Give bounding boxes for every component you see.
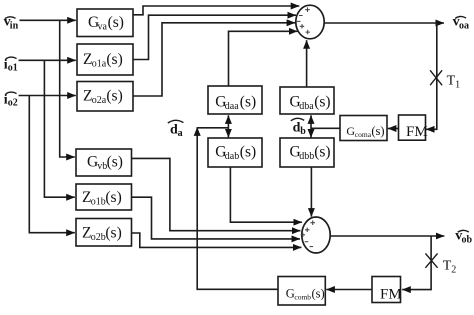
node d_a double arrow [227, 115, 229, 137]
svg-text:o2b: o2b [91, 232, 106, 243]
svg-text:FM: FM [406, 124, 428, 140]
svg-text:(s): (s) [105, 189, 121, 206]
wire i_o2 to Z_o2a [19, 95, 76, 97]
wire Z_o2a output to summing junction S1 [133, 23, 295, 96]
wire S2 output to v_ob [330, 235, 444, 237]
signs of summing junction S1 [297, 7, 310, 34]
block G_coma [340, 116, 387, 141]
label v_in [4, 15, 19, 32]
sampler T1 X mark [430, 70, 442, 85]
node d_b double arrow [310, 115, 312, 137]
hat over i_o1 [6, 57, 17, 59]
label T2 [443, 259, 457, 276]
label i_o2 [4, 92, 18, 108]
block G_vb [76, 149, 132, 176]
hat over v_oa [455, 16, 466, 18]
wire G_coma to node d_b [311, 127, 340, 129]
label d_a [170, 122, 183, 139]
svg-text:daa: daa [225, 101, 239, 112]
block Z_o1a [77, 44, 133, 75]
svg-text:(s): (s) [240, 94, 256, 111]
wire Z_o1a output to summing junction S1 [133, 15, 296, 59]
wire G_dab output to summing junction S2 [230, 167, 302, 222]
svg-text:in: in [10, 20, 19, 31]
svg-text:dab: dab [225, 151, 239, 162]
wire Z_o2b output to summing junction S2 [132, 233, 302, 247]
wire Z_o1b output to summing junction S2 [132, 197, 300, 239]
sampler T2 X mark [425, 253, 437, 267]
svg-text:o2: o2 [8, 98, 18, 109]
block FM b [372, 277, 402, 303]
svg-text:1: 1 [455, 80, 460, 91]
hat over d_b [291, 118, 304, 121]
summing junction S1 [296, 5, 324, 39]
svg-text:(s): (s) [240, 144, 256, 161]
block G_daa [208, 86, 262, 114]
wire G_dbb output down to summing junction S2 [310, 167, 312, 217]
label d_b [293, 120, 307, 137]
svg-text:(s): (s) [106, 88, 122, 105]
wire i_o1 to Z_o1a [19, 59, 76, 61]
hat over v_ob [458, 230, 469, 232]
block G_dba [280, 87, 334, 114]
svg-text:(s): (s) [314, 144, 330, 161]
svg-text:o2a: o2a [92, 95, 107, 106]
svg-text:oa: oa [459, 20, 469, 31]
svg-text:o1: o1 [8, 63, 18, 74]
wire FM b to G_comb [326, 289, 372, 291]
svg-text:coma: coma [355, 130, 372, 139]
label i_o1 [4, 57, 18, 73]
svg-text:o1b: o1b [91, 197, 106, 208]
svg-text:FM: FM [380, 287, 402, 303]
block Z_o2a [77, 82, 133, 112]
block Z_o2b [76, 219, 132, 247]
svg-text:a: a [178, 128, 183, 139]
svg-text:o1a: o1a [92, 59, 107, 70]
wire i_o2 branch down to Z_o2b [29, 96, 75, 233]
block G_comb [278, 277, 325, 306]
svg-text:(s): (s) [107, 154, 123, 171]
wire feedback b: tap down through sampler T2 to FM [402, 236, 431, 290]
wire v_in to G_va [20, 19, 76, 21]
wire G_daa output up to summing junction S1 [229, 31, 298, 86]
svg-text:dbb: dbb [299, 151, 314, 162]
label T1 [447, 74, 461, 91]
wire FM a to G_coma [388, 128, 399, 130]
block G_dbb [280, 138, 334, 167]
hat over i_o2 [6, 92, 17, 94]
block Z_o1b [76, 184, 132, 210]
wire G_comb output to node d_a [197, 127, 278, 289]
wire i_o1 branch down to Z_o1b [44, 60, 74, 197]
svg-text:2: 2 [451, 265, 456, 276]
wire G_dba output up to summing junction S1 [306, 40, 308, 87]
svg-text:(s): (s) [371, 124, 384, 138]
svg-text:dba: dba [299, 101, 314, 112]
wire G_va output to summing junction S1 [133, 6, 299, 15]
svg-text:ob: ob [462, 235, 473, 246]
svg-text:va: va [98, 22, 108, 33]
signs of summing junction S2 [301, 220, 315, 246]
svg-text:(s): (s) [312, 286, 325, 300]
svg-text:b: b [300, 126, 306, 137]
block G_dab [208, 138, 262, 167]
block FM a [399, 115, 428, 140]
svg-text:(s): (s) [108, 14, 124, 31]
wire feedback a: tap down through sampler T1 to FM [426, 23, 437, 129]
svg-text:(s): (s) [314, 94, 330, 111]
label v_oa [453, 15, 469, 32]
summing junction S2 [302, 217, 330, 253]
block G_va [77, 9, 133, 37]
label v_ob [455, 229, 472, 246]
hat over v_in [5, 17, 16, 19]
wire G_vb output to summing junction S2 [132, 158, 301, 230]
wire S1 output to v_oa [324, 22, 444, 24]
hat over d_a [168, 120, 184, 123]
wire v_in branch down to G_vb [60, 20, 75, 157]
svg-text:(s): (s) [105, 225, 121, 242]
svg-text:comb: comb [294, 293, 311, 302]
wire node d_a horizontal link [197, 127, 228, 129]
svg-text:(s): (s) [106, 51, 122, 68]
